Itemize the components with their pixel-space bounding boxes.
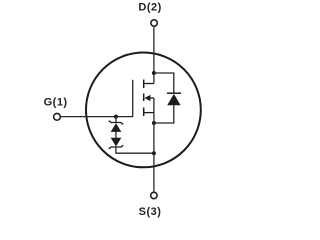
terminal pin G (1)	[54, 113, 61, 120]
terminal pin S (3)	[151, 192, 157, 198]
Q1 body channel plate	[143, 94, 145, 102]
Q1 drain channel plate	[143, 80, 145, 89]
wire drain node to body diode cathode	[154, 73, 174, 94]
node drain junction	[152, 71, 156, 75]
zener diode DZ2 (cathode down)	[109, 138, 123, 149]
terminal pin D (2)	[151, 20, 157, 26]
node zener-source junction	[152, 151, 156, 155]
Q1 body stub	[150, 97, 154, 99]
wire body diode anode to source node	[154, 105, 174, 123]
wire gate node to zener chain	[115, 117, 117, 123]
Q1 source channel plate	[143, 108, 145, 117]
node diode-source junction	[152, 121, 156, 125]
wire source vertical (body stub to S terminal)	[153, 98, 155, 192]
MOSFET envelope circle	[86, 53, 201, 168]
Q1 gate plate	[132, 80, 134, 117]
node gate junction	[114, 115, 118, 119]
zener diode DZ1 (cathode up)	[109, 121, 123, 132]
svg-text:G(1): G(1)	[44, 97, 68, 109]
body diode D1 (drain-source)	[167, 93, 181, 105]
svg-text:S(3): S(3)	[139, 206, 162, 218]
svg-text:D(2): D(2)	[138, 2, 161, 14]
transistor Q1 N-channel MOSFET	[133, 80, 154, 118]
wire gate terminal to gate plate	[61, 116, 133, 118]
Q1 drain stub	[144, 83, 154, 85]
wire drain terminal to drain node	[153, 26, 155, 83]
Q1 source stub	[144, 112, 154, 114]
wire between zeners	[115, 132, 117, 139]
wire zener chain to source node	[116, 147, 154, 153]
Q1 body arrow	[144, 95, 150, 101]
